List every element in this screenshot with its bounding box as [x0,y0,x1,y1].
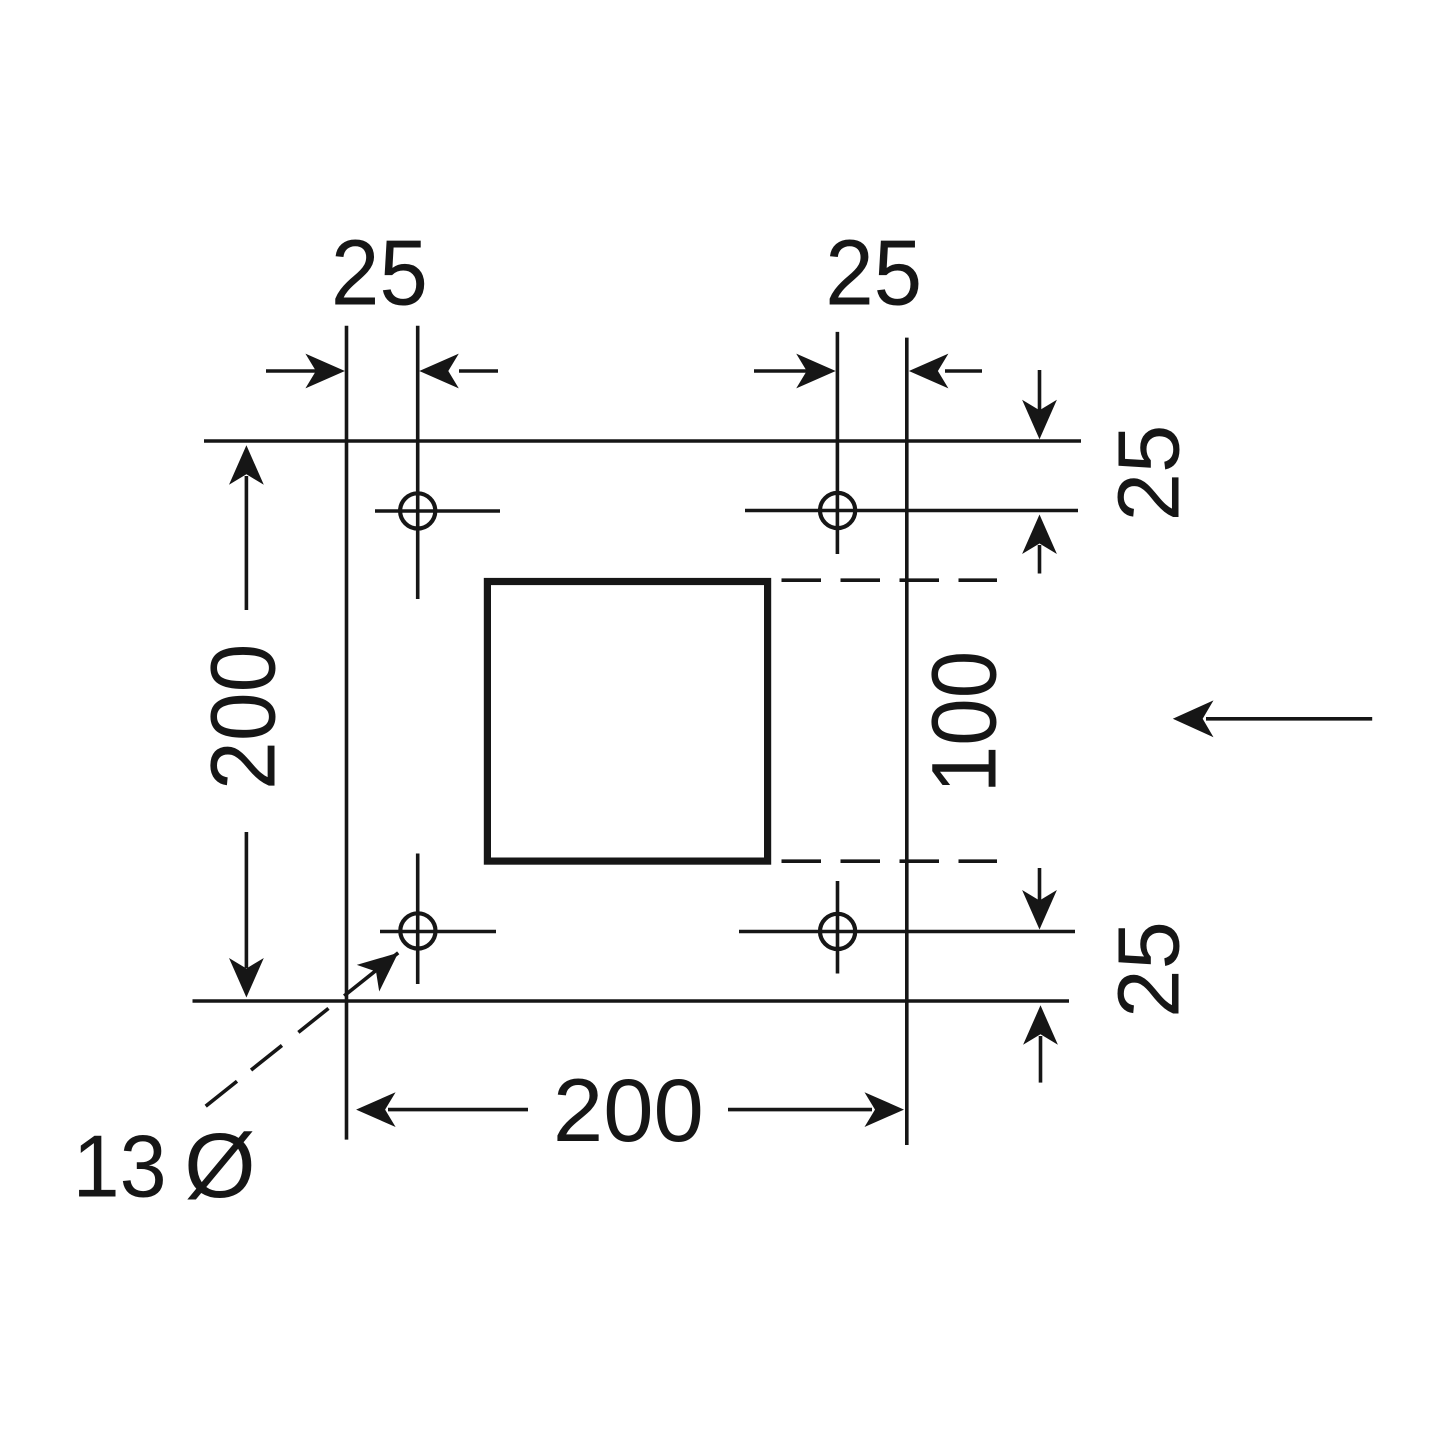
dim 25 right-top: upper arrow [1038,370,1042,412]
leader arrowhead [357,939,410,991]
dim 25 right-bottom: lower arrow [1039,1036,1043,1083]
dim 25 top-left: left arrow [266,369,330,373]
dim 200 bottom: right arrow [728,1108,872,1112]
centerline bottom-right hole vertical [836,881,840,974]
centerline bottom-left hole horizontal [380,930,496,934]
extension line top edge [204,439,1081,443]
leader line to hole (dashed) [206,953,399,1106]
svg-text:Ø: Ø [184,1115,256,1217]
hole top-left [400,493,435,528]
square cutout [487,582,767,862]
dim 25 right-top: lower arrow [1038,545,1042,574]
extension line left edge [345,326,349,1140]
dim 200 bottom: left arrow [388,1108,528,1112]
svg-text:25: 25 [331,221,428,325]
centerline top-right hole horizontal [745,509,1078,513]
svg-text:25: 25 [1100,425,1197,522]
svg-text:13: 13 [73,1116,167,1215]
dashed projection line top [782,578,998,582]
centerline bottom-left hole vertical [416,854,420,985]
direction arrow right side [1206,717,1372,721]
extension line bottom edge [193,999,1070,1003]
dim 25 top-left: right arrow [459,369,498,373]
svg-text:25: 25 [825,221,922,325]
extension line right edge [905,338,909,1145]
svg-text:200: 200 [193,644,295,790]
centerline top-left hole horizontal [375,509,500,513]
svg-text:100: 100 [913,651,1015,794]
extension line right hole column [836,332,840,554]
dim 25 right-bottom: upper arrow [1038,868,1042,902]
dim 25 top-right: left arrow [754,369,810,373]
dashed projection line bottom [782,859,998,863]
dim 200 left: upper arrow [245,476,249,610]
hole bottom-left [400,913,435,948]
dim 25 top-right: right arrow [945,369,982,373]
dim 200 left: lower arrow [245,832,249,968]
svg-text:200: 200 [553,1060,704,1160]
hole top-right [820,493,855,528]
svg-text:25: 25 [1100,921,1197,1018]
hole bottom-right [820,914,855,949]
centerline bottom-right hole horizontal [739,930,1075,934]
extension line left hole column [416,326,420,599]
